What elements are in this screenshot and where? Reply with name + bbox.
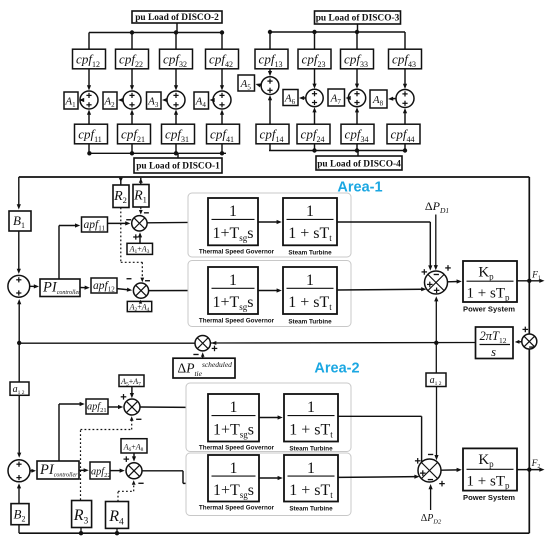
wire R3 dashed droop to governor summer 3	[80, 430, 82, 501]
wire F2 down to bottom bus	[528, 470, 530, 534]
wire S2 to A2	[122, 99, 123, 101]
wire power system 1 output to F1	[517, 280, 541, 282]
wire tie feedback up into area-1 output summer	[435, 300, 437, 343]
box pu Load of DISCO-3	[315, 11, 401, 24]
group area-2 governor-turbine 2	[186, 453, 351, 516]
block apf11	[82, 217, 108, 232]
wire A5+A7 to governor summer 3	[131, 387, 133, 395]
wire power system 2 output to F2	[517, 469, 541, 471]
block R1	[133, 185, 149, 208]
block cpf43	[389, 49, 422, 69]
wire governor summer 4 to thermal governor 4	[142, 470, 183, 472]
wire governor4 to turbine4	[259, 477, 279, 479]
wire a12 mid to area-2 output summer	[436, 387, 438, 457]
svg-text:1: 1	[230, 399, 238, 416]
summing junction S4 (DISCO group left)	[221, 69, 223, 87]
block steam turbine 4 (1/(1+sTt))	[284, 455, 338, 502]
wire A2+A4 to governor summer 2	[140, 301, 142, 302]
block A8	[370, 90, 387, 108]
block A4	[194, 92, 209, 109]
wire turbine2 to area-1 output summer	[337, 288, 423, 291]
svg-text:1: 1	[306, 272, 314, 289]
wire S7 to A7	[347, 97, 350, 99]
wire apf12 to governor summer 2	[117, 289, 129, 290]
wire DISCO-4 collection bus	[269, 144, 271, 151]
block A2+A4	[127, 301, 151, 311]
svg-text:Area-1: Area-1	[337, 180, 382, 196]
svg-text:Thermal Speed Governor: Thermal Speed Governor	[199, 505, 275, 512]
wire delta P tie actual line	[211, 342, 476, 345]
svg-text:1: 1	[307, 460, 315, 477]
wire S4 to A4	[212, 99, 214, 101]
svg-text:1: 1	[307, 399, 315, 416]
wire scheduled tie to tie error summer	[202, 355, 204, 358]
wire ACE2 to PI controller 2	[30, 470, 33, 472]
svg-text:pu Load of DISCO-2: pu Load of DISCO-2	[135, 13, 219, 23]
block A1+A3	[127, 243, 153, 254]
wire apf11 to governor summer 1	[108, 222, 127, 224]
box pu Load of DISCO-2	[132, 11, 222, 23]
wire PI1 to apf12	[80, 287, 86, 289]
box pu Load of DISCO-1	[134, 158, 222, 173]
block R3	[72, 501, 92, 528]
summing junction ACE1 (area-1)	[8, 275, 30, 297]
wire tie error to left feedback	[19, 342, 195, 344]
svg-text:1 + sTt: 1 + sTt	[288, 294, 332, 312]
wire bottom bus F2 feedback	[19, 532, 529, 534]
block thermal speed governor 1 (1/(1+Tsg s))	[208, 198, 258, 245]
summing junction governor 2 area-1	[133, 283, 148, 298]
block a12 left	[10, 382, 29, 395]
svg-text:1 + sTt: 1 + sTt	[289, 482, 333, 500]
svg-text:1: 1	[229, 203, 237, 220]
wire area-2 summer to power system 2	[441, 469, 458, 471]
wire F1 to B1	[18, 177, 20, 206]
svg-text:s: s	[491, 345, 496, 359]
svg-text:1+Tsgs: 1+Tsgs	[212, 294, 253, 312]
svg-text:Area-2: Area-2	[314, 361, 359, 377]
wire governor summer 2 to thermal governor 3	[149, 290, 204, 292]
wire governor2 to turbine2	[258, 290, 278, 292]
svg-text:Power System: Power System	[463, 305, 515, 314]
wire F1 up to top frame	[528, 177, 530, 281]
block thermal speed governor 2 (1/(1+Tsg s))	[208, 267, 258, 314]
block steam turbine 1 (1/(1+sTt))	[283, 198, 337, 245]
block power system 2 (Kp/(1+sTp))	[463, 448, 517, 490]
wire DISCO-3 distribution bus	[357, 24, 359, 32]
svg-text:1: 1	[306, 203, 314, 220]
wire bus to R3	[80, 528, 82, 534]
block 2piT12/s	[476, 327, 514, 359]
block PI controller 2	[37, 461, 79, 479]
wire A1+A3 to governor summer 1	[139, 236, 141, 243]
block A6+A8	[121, 439, 147, 453]
summing junction S1 (DISCO group left)	[88, 69, 90, 87]
summing junction tie error	[195, 336, 210, 351]
wire ACE1 to PI controller 1	[30, 285, 36, 287]
block cpf41	[207, 124, 240, 144]
wire S6 to A6	[303, 97, 306, 99]
summing junction ACE2 (area-2)	[8, 460, 30, 482]
wire S3 to A3	[166, 99, 167, 101]
wire governor3 to turbine3	[259, 417, 279, 419]
svg-text:1+Tsgs: 1+Tsgs	[212, 225, 253, 243]
block R4	[106, 502, 129, 529]
svg-text:1 + sTt: 1 + sTt	[289, 421, 333, 439]
block steam turbine 3 (1/(1+sTt))	[284, 394, 338, 442]
block A5+A7	[119, 375, 144, 387]
wire F2 up to tie summer	[528, 349, 530, 470]
block cpf22	[116, 49, 149, 69]
block A1	[64, 92, 78, 109]
block apf21	[86, 399, 108, 414]
block cpf14	[256, 124, 289, 144]
block cpf33	[341, 49, 374, 69]
svg-text:1+Tsgs: 1+Tsgs	[213, 421, 254, 439]
wire bus to R4	[116, 528, 118, 533]
wire governor1 to turbine1	[258, 221, 278, 223]
wire apf22 to governor summer 4	[110, 470, 121, 472]
svg-text:Steam Turbine: Steam Turbine	[289, 506, 333, 513]
wire F1 feedback top frame	[19, 176, 530, 178]
wire S1 to A1	[80, 99, 83, 101]
group area-1 governor-turbine 1	[188, 193, 351, 257]
box pu Load of DISCO-4	[316, 156, 402, 170]
wire delta PD2 into area-2 output summer	[430, 488, 432, 510]
block cpf34	[341, 124, 374, 144]
wire B1 to area-1 ACE summer	[18, 231, 20, 270]
wire area-1 summer to power system 1	[448, 281, 459, 283]
block A7	[328, 89, 345, 106]
summing junction governor 1 area-1	[132, 216, 147, 231]
wire A6+A8 to governor summer 4	[133, 453, 135, 458]
summing junction S3 (DISCO group left)	[175, 69, 177, 87]
summing junction S8 (DISCO group right)	[404, 69, 406, 86]
wire frame to R2 with arrow	[120, 178, 122, 185]
wire turbine3 to area-2 output summer	[338, 415, 422, 417]
wire DISCO-2 distribution bus	[176, 23, 178, 33]
block cpf23	[298, 49, 331, 69]
wire F1 down to tie summer	[528, 281, 530, 334]
wire delta PD1 into area-1 output summer	[435, 215, 437, 267]
svg-text:1: 1	[229, 272, 237, 289]
block A6	[283, 90, 298, 106]
block cpf42	[206, 49, 239, 69]
svg-text:Steam Turbine: Steam Turbine	[289, 446, 333, 453]
svg-text:Steam Turbine: Steam Turbine	[288, 319, 332, 326]
group area-2 governor-turbine 1	[186, 383, 351, 452]
block thermal speed governor 3 (1/(1+Tsg s))	[208, 394, 259, 442]
wire PI1 to apf11	[58, 226, 60, 280]
wire PI2 to apf22	[79, 469, 85, 471]
group area-1 governor-turbine 2	[188, 261, 351, 327]
block cpf31	[162, 124, 195, 144]
block B1	[9, 211, 31, 231]
svg-text:1 + sTt: 1 + sTt	[288, 225, 332, 243]
summing junction S2 (DISCO group left)	[131, 69, 133, 87]
wire a12 to ACE2 summer	[18, 395, 20, 454]
summing junction S5 (DISCO group right)	[269, 69, 271, 73]
block cpf24	[297, 124, 330, 144]
block cpf12	[73, 49, 106, 69]
wire tie summer to 2piT12 block	[518, 341, 522, 343]
block cpf32	[160, 49, 193, 69]
block cpf11	[75, 124, 108, 144]
block A2	[103, 92, 117, 109]
svg-text:pu Load of DISCO-3: pu Load of DISCO-3	[316, 14, 400, 24]
wire tie actual down to a12 mid	[435, 343, 437, 373]
svg-text:1: 1	[230, 460, 238, 477]
block R2	[113, 185, 129, 208]
svg-text:pu Load of DISCO-4: pu Load of DISCO-4	[317, 160, 401, 170]
summing junction S6 (DISCO group right)	[314, 69, 316, 85]
wire PI2 to apf21	[58, 404, 60, 461]
wire S5 to A5	[259, 84, 261, 87]
svg-text:Thermal Speed Governor: Thermal Speed Governor	[199, 249, 275, 256]
block cpf21	[118, 124, 151, 144]
wire DISCO-1 collection bus	[88, 144, 90, 154]
summing junction S7 (DISCO group right)	[356, 69, 358, 85]
wire tie error down to a12	[18, 343, 20, 382]
wire governor summer 3 to thermal governor 3	[140, 406, 203, 408]
block apf22	[90, 462, 110, 479]
svg-text:Thermal Speed Governor: Thermal Speed Governor	[199, 318, 275, 325]
block cpf13	[255, 49, 288, 69]
wire R1 dashed droop to governor summer 1	[140, 208, 142, 212]
block power system 1 (Kp/(1+sTp))	[463, 261, 517, 302]
svg-text:1 + sTp: 1 + sTp	[467, 474, 510, 491]
wire R4 dashed droop to governor summer 4	[117, 491, 119, 501]
summing junction area-2 output	[418, 459, 441, 482]
wire turbine1 to area-1 output summer	[337, 221, 430, 223]
wire turbine4 to area-2 output summer	[338, 476, 416, 479]
svg-text:Thermal Speed Governor: Thermal Speed Governor	[199, 445, 275, 452]
wire frame to R1 with arrow	[140, 178, 142, 185]
svg-text:pu Load of DISCO-1: pu Load of DISCO-1	[136, 162, 220, 172]
block thermal speed governor 4 (1/(1+Tsg s))	[208, 455, 259, 502]
block apf12	[91, 278, 117, 293]
block PI controller 1	[40, 279, 80, 297]
svg-text:1 + sTp: 1 + sTp	[467, 286, 510, 303]
wire tie error up into ACE1 summer	[18, 303, 20, 343]
wire apf21 to governor summer 3	[108, 406, 120, 408]
svg-text:Steam Turbine: Steam Turbine	[288, 250, 332, 257]
svg-text:1+Tsgs: 1+Tsgs	[213, 482, 254, 500]
summing junction tie line (F1-F2)	[522, 334, 537, 349]
block delta P tie scheduled	[173, 358, 235, 378]
summing junction area-1 output	[425, 271, 448, 294]
block cpf44	[387, 124, 420, 144]
block A5	[238, 75, 255, 91]
block B2	[11, 504, 29, 525]
block steam turbine 2 (1/(1+sTt))	[283, 267, 337, 314]
summing junction governor 3 area-2	[124, 399, 140, 415]
wire R2 dashed droop to governor summer 2	[120, 208, 122, 263]
svg-text:Power System: Power System	[463, 493, 515, 502]
block A3	[147, 92, 162, 109]
wire S8 to A8	[392, 98, 396, 100]
wire B2 to bottom bus	[18, 525, 20, 534]
summing junction governor 4 area-2	[126, 463, 142, 479]
wire governor summer 1 to thermal governor 1	[147, 221, 203, 223]
block a12 mid	[426, 373, 446, 387]
wire B2 to ACE2 summer	[18, 487, 20, 504]
